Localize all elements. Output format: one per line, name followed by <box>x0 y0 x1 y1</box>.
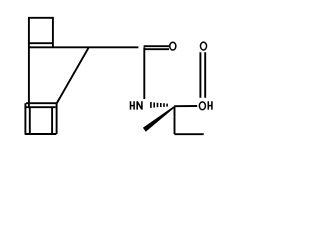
label O carbonyl <box>170 42 176 50</box>
wire chain horizontal <box>28 46 138 48</box>
label H of HN <box>131 101 135 109</box>
wire left vertical <box>28 47 30 107</box>
label N of HN <box>137 101 142 109</box>
carbonyl C=O double bond <box>144 46 169 49</box>
carboxyl C=O vertical double bond <box>200 52 205 98</box>
ethyl bond right <box>175 133 204 135</box>
bond C to N vertical <box>143 47 145 99</box>
bold wedge methyl <box>143 106 175 131</box>
bond C2 to OH <box>174 105 197 107</box>
cyclobutene double bond inner line <box>29 42 53 44</box>
cyclobutene ring top <box>29 18 53 48</box>
benzene square inner double lines <box>25 107 55 134</box>
benzene square outer <box>25 103 57 134</box>
label H of OH <box>208 101 212 109</box>
ethyl bond down <box>174 106 176 134</box>
hashed wedge N to C2 <box>151 102 167 108</box>
label O carboxyl top <box>200 42 206 50</box>
label O of OH <box>199 102 205 110</box>
wire diagonal <box>57 47 89 103</box>
